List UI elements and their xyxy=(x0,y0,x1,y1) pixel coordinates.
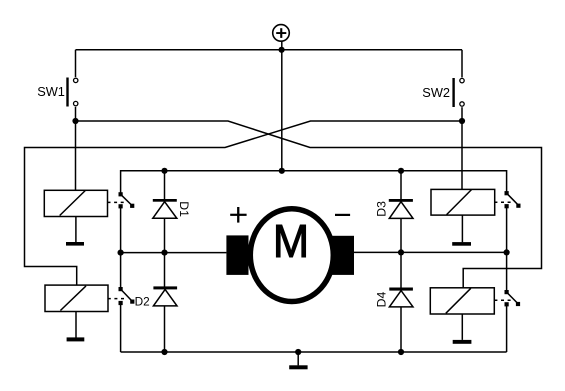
svg-text:D1: D1 xyxy=(177,201,191,217)
svg-text:D4: D4 xyxy=(375,292,389,308)
svg-text:M: M xyxy=(273,215,309,268)
svg-text:SW2: SW2 xyxy=(422,85,450,100)
svg-text:D3: D3 xyxy=(375,201,389,217)
svg-text:SW1: SW1 xyxy=(37,84,65,99)
svg-text:D2: D2 xyxy=(135,294,150,308)
